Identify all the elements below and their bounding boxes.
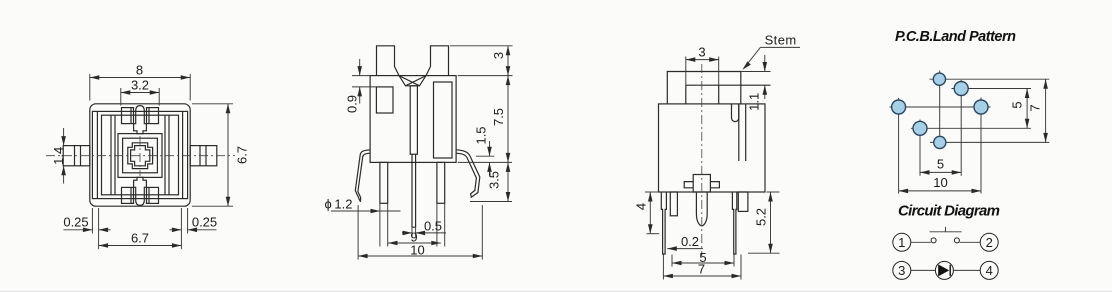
button inner notched square — [131, 146, 150, 166]
pad 1 — [933, 73, 945, 85]
base outline right — [182, 111, 184, 198]
dimension 3 stem height — [491, 46, 511, 76]
center post — [696, 192, 707, 226]
terminal circle 3 — [893, 261, 911, 279]
terminal circle 4 — [980, 261, 998, 279]
svg-text:10: 10 — [933, 175, 947, 190]
dimension 6.7 right side — [192, 104, 250, 206]
pad6 crosshair / 7 bottom extension — [930, 141, 1049, 143]
vertical center line — [139, 136, 141, 176]
svg-text:Circuit Diagram: Circuit Diagram — [898, 203, 1000, 220]
leg right wide — [738, 192, 748, 211]
pad 5 — [913, 121, 927, 135]
svg-text:6.7: 6.7 — [131, 231, 149, 246]
svg-text:0.5: 0.5 — [424, 219, 442, 234]
svg-text:1.4: 1.4 — [51, 147, 66, 165]
LED triangle — [938, 264, 949, 276]
side pin left — [63, 146, 90, 166]
pad3 pad4 row line — [890, 106, 991, 108]
terminal circle 2 — [980, 233, 998, 251]
svg-text:2: 2 — [986, 235, 993, 250]
svg-text:0.2: 0.2 — [681, 234, 699, 249]
pad1 crosshair / 7 top extension — [930, 78, 1050, 80]
svg-text:0.9: 0.9 — [345, 95, 360, 113]
pad2 crosshair / 5 top extension — [952, 88, 1032, 90]
dimension 5 horizontal — [920, 157, 961, 175]
dimension 1.4 left side — [51, 128, 66, 184]
pad5 crosshair / 5 bottom extension — [911, 127, 1031, 129]
svg-text:1.1: 1.1 — [747, 93, 762, 111]
dimension 7 legs — [663, 255, 741, 280]
dimension 5 vertical — [1010, 89, 1030, 129]
corner contact bottom-left — [122, 187, 134, 203]
svg-text:6.7: 6.7 — [235, 146, 250, 164]
plunger wing left — [684, 182, 693, 188]
dimension 7.5 body height — [491, 76, 511, 163]
body outline — [370, 76, 456, 163]
dimension 0.25 right — [169, 214, 217, 232]
vertical center line — [701, 64, 703, 256]
svg-text:7.5: 7.5 — [491, 108, 506, 126]
dimension 3.2 — [121, 78, 159, 106]
side clip right — [456, 150, 480, 197]
dimension 0.2 leg thickness — [667, 234, 703, 251]
svg-text:5: 5 — [1010, 101, 1025, 108]
svg-text:8: 8 — [136, 63, 143, 78]
wire 1 to contact — [911, 241, 931, 243]
dimension 9 pins — [388, 230, 441, 246]
wire contact to 2 — [960, 241, 981, 243]
button frame outer — [118, 134, 162, 178]
button outer notched square — [128, 143, 153, 169]
LED cathode bar — [949, 265, 951, 276]
label Stem with leader — [741, 32, 800, 71]
inner housing line left A — [110, 115, 112, 195]
LED circle — [935, 261, 953, 279]
dimension 1.5 clip ledge — [474, 126, 492, 176]
mounting pin right — [437, 162, 445, 203]
rod extension lines — [411, 228, 413, 237]
center rod 0.5 — [412, 154, 416, 227]
corner contact bottom-right — [147, 187, 159, 203]
wire LED to 4 — [954, 269, 981, 271]
plunger wing right — [710, 182, 719, 188]
switch cover outer outline — [90, 104, 190, 206]
base inner frame — [102, 115, 179, 195]
inner pocket 0.9 — [376, 87, 393, 113]
svg-text:3: 3 — [898, 263, 905, 278]
stem prong right — [426, 46, 449, 76]
svg-text:ϕ 1.2: ϕ 1.2 — [325, 197, 353, 212]
right extension lines — [450, 45, 513, 47]
button frame inner — [123, 138, 158, 173]
dimension 10 horizontal — [899, 175, 981, 193]
pad 6 — [934, 136, 946, 148]
svg-text:5: 5 — [937, 157, 944, 172]
wire 3 to LED — [911, 269, 936, 271]
inner housing line right A — [168, 115, 170, 195]
leg left wide — [670, 192, 677, 216]
dimension 5 legs — [672, 250, 734, 267]
svg-text:10: 10 — [410, 242, 424, 257]
terminal circle 1 — [893, 233, 911, 251]
dimension 10 overall — [358, 205, 482, 260]
switch cover inner outline — [92, 111, 187, 198]
svg-text:3: 3 — [698, 45, 705, 60]
switch contact left — [931, 238, 936, 243]
dimension 8 — [90, 63, 190, 101]
inner housing line left B — [114, 115, 116, 195]
stem outline — [667, 72, 741, 104]
svg-text:7: 7 — [1028, 104, 1043, 111]
leg left long — [661, 192, 666, 254]
stem V notch — [399, 76, 426, 86]
svg-text:P.C.B.Land Pattern: P.C.B.Land Pattern — [895, 29, 1016, 45]
svg-text:1: 1 — [898, 235, 905, 250]
svg-text:4: 4 — [986, 263, 993, 278]
svg-text:3.5: 3.5 — [487, 171, 502, 189]
leg right long — [732, 192, 736, 254]
dimension 6.7 bottom — [99, 231, 182, 248]
dimension 1.1 slot — [741, 55, 771, 111]
plunger block — [693, 175, 710, 193]
stem slot U — [732, 104, 739, 121]
body outline — [659, 104, 766, 192]
svg-text:3.2: 3.2 — [131, 78, 149, 93]
keying stem bottom — [134, 177, 147, 205]
svg-text:Stem: Stem — [765, 32, 797, 47]
corner contact top-right — [147, 108, 159, 124]
svg-text:1.5: 1.5 — [474, 126, 489, 144]
pad3 vertical / 10 left extension — [898, 98, 900, 194]
pad 2 — [954, 82, 968, 96]
dimension 0.5 rod — [402, 219, 446, 236]
pad4 vertical / 10 right extension — [980, 98, 982, 194]
svg-text:4: 4 — [634, 203, 649, 210]
dimension 4 legs — [634, 192, 660, 234]
stem V notch diagonals — [399, 76, 420, 86]
horizontal center line — [46, 155, 235, 157]
base outline left — [96, 111, 98, 198]
pin extension lines — [379, 203, 381, 246]
slot walls into body — [738, 104, 740, 161]
svg-text:3: 3 — [491, 52, 506, 59]
bottom extension lines — [91, 208, 93, 234]
plunger shaft — [410, 86, 417, 154]
dimension 7 vertical — [1028, 79, 1048, 142]
switch actuator bar — [930, 231, 962, 233]
pad 4 — [974, 100, 988, 114]
svg-text:5.2: 5.2 — [754, 208, 769, 226]
dimension 3 stem — [686, 45, 719, 86]
mounting pin left — [380, 162, 388, 203]
faint page edge line — [0, 290, 1112, 292]
pad 3 — [892, 100, 906, 114]
dimension 0.25 left — [63, 214, 110, 232]
inner right column — [434, 82, 453, 158]
dimension 3.5 clip depth — [487, 162, 511, 201]
dimension phi 1.2 pin — [325, 197, 401, 214]
stem inner step — [686, 85, 771, 104]
keying stem top — [134, 106, 147, 134]
stem prong left — [377, 46, 400, 76]
inner housing line right B — [164, 115, 166, 195]
svg-text:7: 7 — [698, 262, 705, 277]
svg-text:0.25: 0.25 — [63, 214, 88, 229]
corner contact top-left — [122, 108, 134, 124]
side clip left — [355, 150, 370, 202]
dimension 5.2 legs right — [748, 192, 780, 253]
switch contact right — [954, 238, 959, 243]
side pin right — [190, 146, 217, 166]
dimension 0.9 — [345, 59, 377, 113]
svg-text:0.25: 0.25 — [192, 214, 217, 229]
